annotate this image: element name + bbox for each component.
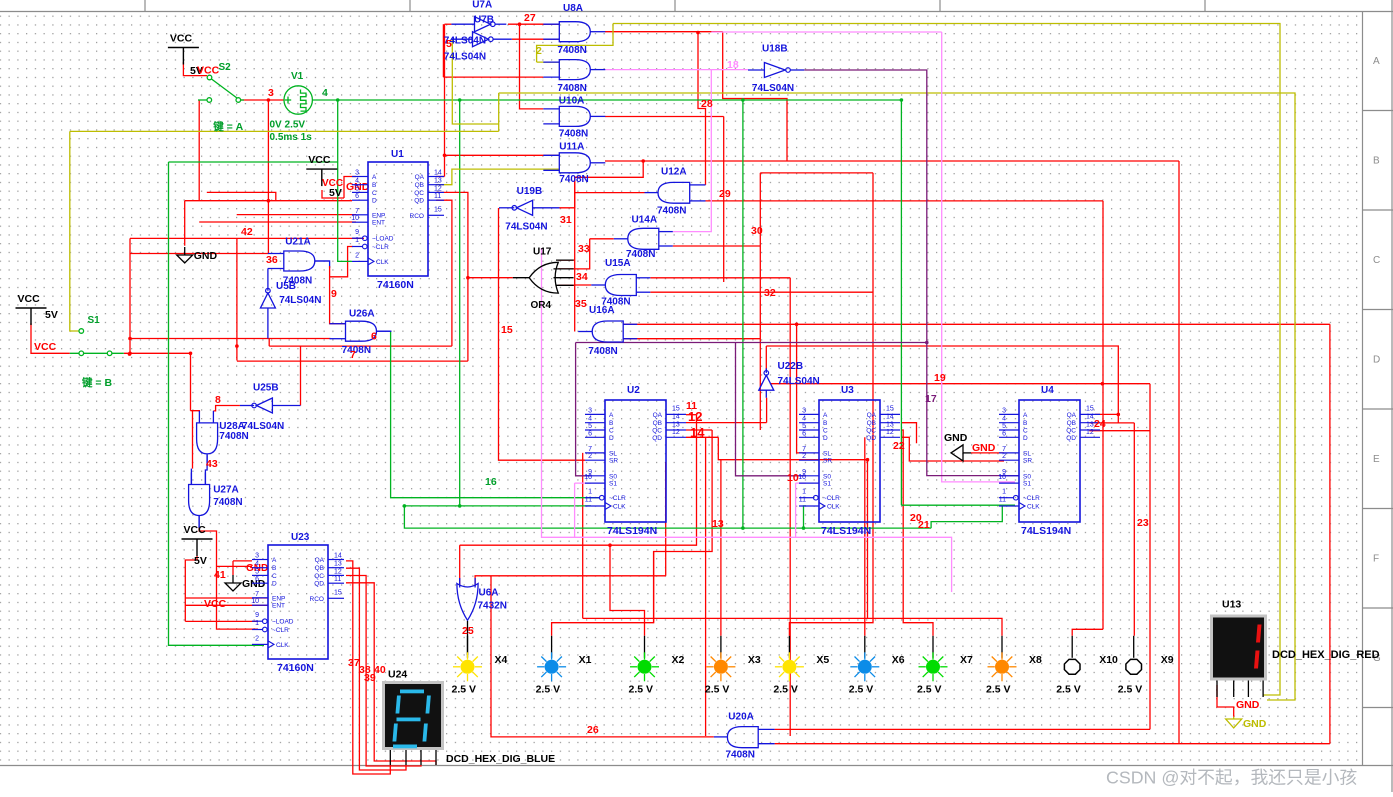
svg-text:X1: X1 — [579, 654, 592, 666]
AND gate U14A 7408N (mirrored, points left) — [614, 215, 673, 261]
svg-text:D: D — [1023, 435, 1028, 442]
AND gate U26A 7408N — [330, 308, 392, 356]
wire net 23 vert — [1149, 384, 1151, 730]
svg-text:QD: QD — [866, 435, 876, 442]
inverter U25B 74LS04N (points left) — [240, 383, 301, 433]
svg-text:12: 12 — [1086, 429, 1094, 436]
svg-text:15: 15 — [1086, 405, 1094, 412]
svg-text:V1: V1 — [291, 71, 304, 82]
svg-text:11: 11 — [799, 497, 806, 504]
wire olive row y93 — [499, 93, 1295, 700]
svg-text:22: 22 — [893, 440, 905, 452]
wire U6A.in2 feed — [475, 576, 666, 586]
AND gate U10A 7408N — [543, 96, 605, 140]
wire U4.QA out — [1095, 413, 1118, 415]
counter U23 74160N — [251, 532, 344, 674]
svg-text:OR4: OR4 — [531, 300, 552, 311]
wire net 7 row — [237, 360, 468, 362]
svg-text:36: 36 — [266, 254, 278, 266]
svg-text:12: 12 — [688, 409, 702, 424]
svg-text:2: 2 — [802, 453, 806, 460]
svg-text:74160N: 74160N — [277, 662, 314, 674]
svg-text:S1: S1 — [1023, 481, 1031, 488]
svg-text:F: F — [1373, 554, 1379, 565]
wire U1.QD to 6net — [436, 200, 452, 346]
svg-text:GND: GND — [944, 432, 968, 444]
svg-text:SL: SL — [823, 450, 831, 457]
svg-text:U13: U13 — [1222, 599, 1241, 611]
wire VCC1-S2 feed — [183, 62, 207, 76]
svg-text:74LS04N: 74LS04N — [242, 421, 284, 432]
wire U3 clr drop — [742, 100, 744, 528]
svg-text:2.5 V: 2.5 V — [536, 683, 561, 695]
svg-text:U3: U3 — [841, 385, 854, 396]
wire pink U3.S1 stub — [796, 482, 806, 484]
OR gate U6A 7432N (points down) — [457, 578, 478, 620]
wire purple U3.S0 — [736, 343, 807, 476]
svg-text:S1: S1 — [88, 315, 101, 326]
svg-text:DCD_HEX_DIG_BLUE: DCD_HEX_DIG_BLUE — [446, 753, 555, 765]
svg-text:14: 14 — [434, 170, 442, 177]
svg-text:34: 34 — [576, 271, 588, 283]
svg-text:17: 17 — [925, 393, 937, 405]
svg-text:31: 31 — [560, 214, 572, 226]
wire U1.QA up — [436, 176, 445, 178]
svg-text:40: 40 — [374, 664, 386, 676]
svg-text:10: 10 — [251, 598, 259, 605]
svg-text:2.5 V: 2.5 V — [629, 683, 654, 695]
wire net top right loop — [723, 32, 787, 161]
wire net 19 row — [770, 383, 1150, 385]
svg-text:U7B: U7B — [474, 15, 494, 26]
AND gate U21A 7408N — [268, 237, 330, 287]
inverter U7B 74LS04N — [444, 15, 512, 63]
wire U23 clk vert — [169, 162, 265, 645]
svg-text:14: 14 — [1086, 413, 1094, 420]
svg-text:32: 32 — [764, 287, 776, 299]
svg-text:14: 14 — [886, 413, 894, 420]
svg-text:QC: QC — [866, 428, 876, 435]
wire net 9 drop — [330, 266, 346, 324]
svg-text:X4: X4 — [495, 654, 508, 666]
wire clk bus down — [404, 506, 931, 528]
svg-text:B: B — [823, 420, 827, 427]
switch S2 — [198, 75, 244, 102]
svg-text:B: B — [372, 182, 376, 189]
wire X1 feed note — [653, 552, 655, 623]
svg-text:D: D — [1373, 355, 1380, 366]
wire net42 drop to 7row — [236, 238, 238, 360]
svg-text:U27A: U27A — [213, 485, 239, 496]
svg-text:15: 15 — [672, 405, 680, 412]
wire U14A.in2 row — [673, 245, 761, 247]
inverter U22B 74LS04N (points up) — [759, 361, 820, 398]
svg-text:2: 2 — [536, 45, 542, 57]
wire net 29 vert — [723, 117, 725, 283]
wire U1 ENT row — [185, 200, 352, 202]
svg-text:B: B — [609, 420, 613, 427]
svg-text:7: 7 — [1002, 446, 1006, 453]
wire U1.QC right — [436, 192, 468, 361]
wire X5 feed — [789, 173, 873, 636]
svg-text:A: A — [272, 557, 277, 564]
svg-text:A: A — [1023, 412, 1028, 419]
svg-text:1: 1 — [255, 620, 259, 627]
wire pink right vert — [942, 32, 1015, 482]
wire net 28 b — [698, 32, 706, 185]
indicator probe X1 — [536, 636, 592, 696]
svg-text:15: 15 — [886, 405, 894, 412]
svg-text:7408N: 7408N — [588, 346, 617, 357]
svg-text:DCD_HEX_DIG_RED: DCD_HEX_DIG_RED — [1272, 649, 1380, 661]
svg-text:29: 29 — [719, 188, 731, 200]
wire U23 ~LOAD feed — [185, 620, 258, 622]
wire olive U1.QB link — [436, 169, 559, 185]
svg-text:A: A — [823, 412, 828, 419]
svg-text:39: 39 — [364, 672, 376, 684]
svg-text:2: 2 — [1002, 453, 1006, 460]
svg-text:5: 5 — [588, 423, 592, 430]
svg-text:5: 5 — [446, 38, 452, 50]
svg-text:74LS194N: 74LS194N — [821, 525, 871, 537]
wire U12A out left — [575, 192, 645, 194]
svg-text:13: 13 — [712, 518, 724, 530]
svg-text:U26A: U26A — [349, 308, 375, 319]
svg-text:7432N: 7432N — [478, 601, 507, 612]
wire X10 feed — [1072, 629, 1103, 636]
wire U1 A feed — [344, 177, 356, 199]
display U24 DCD_HEX_DIG_BLUE — [384, 669, 556, 766]
shift register U4 74LS194N — [998, 385, 1100, 537]
wire net 16 green — [391, 331, 600, 498]
wire U27A out blue — [198, 516, 200, 529]
svg-text:QA: QA — [415, 174, 425, 181]
svg-text:~CLR: ~CLR — [823, 495, 840, 502]
svg-text:74160N: 74160N — [377, 279, 414, 291]
wire U2.QB out — [686, 422, 767, 424]
svg-text:7: 7 — [350, 349, 356, 361]
display U13 DCD_HEX_DIG_RED — [1212, 599, 1380, 698]
svg-text:7: 7 — [355, 208, 359, 215]
wire U7A.in stub feed — [445, 23, 452, 25]
wire purple U18B out — [804, 70, 1019, 476]
svg-text:6: 6 — [355, 193, 359, 200]
svg-text:QB: QB — [415, 182, 424, 189]
svg-text:6: 6 — [255, 576, 259, 583]
wire U6A.in1 drop — [459, 545, 461, 586]
wire U27A.A blue drop — [190, 469, 192, 485]
wire U22B out up — [765, 346, 767, 371]
indicator probe X3 — [705, 636, 761, 696]
svg-text:A: A — [609, 412, 614, 419]
svg-text:C: C — [372, 190, 377, 197]
wire net 30 horiz — [760, 172, 873, 174]
svg-text:4: 4 — [255, 561, 259, 568]
svg-text:GND: GND — [194, 250, 218, 262]
svg-text:12: 12 — [672, 429, 680, 436]
svg-text:U4: U4 — [1041, 385, 1054, 396]
svg-text:43: 43 — [206, 458, 218, 470]
wire U17.out run — [468, 277, 513, 279]
svg-text:2.5 V: 2.5 V — [452, 683, 477, 695]
wire U15A.in2 row — [650, 291, 873, 293]
svg-text:12: 12 — [334, 568, 342, 575]
svg-text:7408N: 7408N — [657, 206, 686, 217]
svg-text:X2: X2 — [672, 654, 685, 666]
AND gate U8A 7408N — [543, 3, 605, 56]
wire U21A out drop — [315, 261, 330, 268]
clock source V1 — [284, 86, 312, 114]
svg-text:13: 13 — [334, 561, 342, 568]
wire net 24 row — [1089, 422, 1134, 424]
AND gate U15A 7408N (mirrored, points left) — [591, 258, 650, 307]
wire U3.SL feed — [797, 324, 806, 453]
svg-text:11: 11 — [334, 576, 341, 583]
svg-text:24: 24 — [1094, 418, 1106, 430]
svg-text:QB: QB — [653, 420, 662, 427]
wire U27A out — [199, 527, 258, 629]
wire U15A.in1 row — [650, 277, 790, 279]
svg-text:5V: 5V — [194, 555, 207, 567]
svg-text:VCC: VCC — [34, 341, 57, 353]
svg-text:B: B — [272, 565, 276, 572]
svg-text:11: 11 — [585, 497, 592, 504]
wire U25B.in riser — [300, 346, 302, 405]
svg-text:U7A: U7A — [472, 0, 492, 11]
svg-text:7408N: 7408N — [213, 497, 242, 508]
svg-text:QD: QD — [414, 198, 424, 205]
wire U1 ctrl jog b — [207, 192, 276, 200]
svg-text:QC: QC — [1066, 428, 1076, 435]
indicator probe X9 — [1118, 636, 1174, 696]
switch S1 — [70, 329, 124, 356]
wire net 31/33/34 spine — [574, 177, 576, 331]
svg-text:QB: QB — [1067, 420, 1076, 427]
wire net13 vert U20A.in1 — [705, 437, 707, 736]
svg-text:23: 23 — [1137, 517, 1149, 529]
svg-text:键 = A: 键 = A — [212, 120, 243, 133]
svg-text:U25B: U25B — [253, 383, 279, 394]
wire S2 to V1 seg — [241, 99, 285, 101]
wire pink U18B in — [711, 69, 748, 71]
svg-text:14: 14 — [334, 553, 342, 560]
svg-text:U2: U2 — [627, 385, 640, 396]
svg-text:6: 6 — [588, 430, 592, 437]
svg-text:3: 3 — [355, 170, 359, 177]
wire VCC4 red drop — [185, 556, 197, 621]
power VCC symbol 2 — [306, 169, 337, 186]
svg-text:15: 15 — [501, 324, 513, 336]
svg-text:VCC: VCC — [18, 293, 41, 305]
wire net 42 riser to U1 ~LOAD — [130, 237, 364, 239]
svg-text:11: 11 — [999, 497, 1006, 504]
svg-text:3: 3 — [1002, 407, 1006, 414]
wire U23.QB run — [346, 568, 406, 770]
wire U2.QC out — [686, 429, 712, 431]
wire QA drop — [460, 415, 697, 546]
svg-text:2.5 V: 2.5 V — [705, 683, 730, 695]
svg-text:U19B: U19B — [517, 186, 543, 197]
wire U11A.in1 row — [445, 154, 560, 156]
svg-text:键 = B: 键 = B — [81, 376, 112, 389]
svg-text:4: 4 — [322, 87, 328, 99]
AND gate U11A 7408N — [543, 141, 605, 185]
ground symbol 5 (U13, yellow) — [1226, 717, 1242, 728]
wire U28A out to U27A.B — [205, 455, 207, 484]
svg-text:A: A — [372, 174, 377, 181]
wire U22B net right — [766, 346, 1118, 423]
svg-text:2: 2 — [588, 453, 592, 460]
OR gate U17 OR4 (4-input, points left) — [513, 260, 574, 293]
svg-text:SL: SL — [609, 450, 617, 457]
wire S1 pole red — [31, 323, 70, 353]
svg-text:U15A: U15A — [605, 258, 631, 269]
svg-text:S1: S1 — [823, 481, 831, 488]
svg-text:D: D — [609, 435, 614, 442]
svg-text:X6: X6 — [892, 654, 905, 666]
svg-text:ENP: ENP — [372, 212, 385, 219]
wire U4 clk stem — [900, 100, 902, 505]
svg-text:2.5 V: 2.5 V — [1056, 683, 1081, 695]
svg-text:4: 4 — [588, 416, 592, 423]
svg-text:19: 19 — [934, 372, 946, 384]
svg-text:25: 25 — [462, 625, 474, 637]
wire net41 gnd drop — [232, 561, 234, 575]
svg-text:~CLR: ~CLR — [1023, 495, 1040, 502]
svg-text:X5: X5 — [816, 654, 829, 666]
svg-text:2.5 V: 2.5 V — [917, 683, 942, 695]
svg-text:S0: S0 — [609, 473, 617, 480]
svg-text:0V 2.5V: 0V 2.5V — [270, 120, 306, 131]
svg-text:5: 5 — [355, 185, 359, 192]
wire U17.in4 stub feed — [558, 284, 575, 286]
svg-text:3: 3 — [255, 553, 259, 560]
svg-text:74LS04N: 74LS04N — [505, 222, 547, 233]
wire U27A.A feed — [192, 411, 194, 469]
wire net S2/V1 down to U21A.A — [267, 100, 269, 254]
wire net 42 left vertical — [129, 238, 131, 353]
wire X3 feed vert — [720, 460, 722, 636]
svg-text:9: 9 — [355, 229, 359, 236]
svg-text:X8: X8 — [1029, 654, 1042, 666]
svg-text:QD: QD — [1066, 435, 1076, 442]
svg-text:5V: 5V — [329, 187, 342, 199]
wire U3.QB right — [901, 423, 917, 444]
wire U23 ENP feed — [185, 597, 268, 599]
junction dots — [267, 98, 271, 102]
wire U1 ~CLR branch — [330, 247, 353, 277]
svg-text:13: 13 — [434, 178, 442, 185]
wire U23.QD run — [346, 583, 436, 765]
svg-text:30: 30 — [751, 225, 763, 237]
power VCC symbol 4 — [182, 539, 213, 556]
svg-text:X7: X7 — [960, 654, 973, 666]
svg-text:10: 10 — [351, 215, 359, 222]
AND gate U27A 7408N (vertical) — [189, 473, 243, 528]
wire pink U3.S1 riser — [795, 483, 797, 537]
svg-text:U6A: U6A — [479, 588, 499, 599]
shift register U3 74LS194N — [798, 385, 900, 537]
wire purple U2.S0 — [576, 343, 591, 476]
svg-text:QD: QD — [314, 581, 324, 588]
wire U23 ENT feed — [185, 604, 268, 606]
svg-text:12: 12 — [434, 185, 442, 192]
inverter U19B 74LS04N (points left) — [499, 186, 560, 233]
svg-text:CSDN @对不起，我还只是小孩: CSDN @对不起，我还只是小孩 — [1106, 768, 1357, 788]
wire olive U9A in1 — [537, 61, 560, 63]
indicator probe X6 — [849, 636, 905, 696]
svg-text:U16A: U16A — [589, 305, 615, 316]
svg-text:A: A — [1373, 56, 1380, 67]
wire U17.in1 stub feed — [558, 259, 574, 261]
wire U2.SL vert — [582, 453, 584, 619]
wire U1 B feed — [322, 190, 344, 198]
svg-text:18: 18 — [727, 59, 739, 71]
wire U3.CLK branch — [804, 506, 807, 528]
wire olive row y23 — [613, 24, 1280, 696]
svg-text:~CLR: ~CLR — [609, 495, 626, 502]
svg-text:U5B: U5B — [276, 281, 296, 292]
counter U1 74160N — [351, 149, 444, 291]
svg-text:1: 1 — [588, 489, 592, 496]
wire U2 clk drop — [459, 100, 461, 506]
svg-text:QA: QA — [315, 557, 325, 564]
svg-text:CLK: CLK — [276, 642, 289, 649]
AND gate U28A 7408N (vertical) — [197, 411, 249, 466]
wire U17.in2 link — [558, 239, 589, 269]
svg-text:~CLR: ~CLR — [372, 244, 389, 251]
svg-text:5: 5 — [1002, 423, 1006, 430]
svg-text:13: 13 — [672, 422, 680, 429]
svg-text:10: 10 — [584, 474, 592, 481]
svg-text:SR: SR — [609, 458, 618, 465]
shift register U2 74LS194N — [584, 385, 686, 537]
ground symbol 2 — [225, 575, 241, 591]
svg-text:4: 4 — [1002, 416, 1006, 423]
svg-text:6: 6 — [802, 430, 806, 437]
wire S1 out to right — [124, 353, 191, 410]
svg-text:7408N: 7408N — [726, 750, 755, 761]
svg-text:ENT: ENT — [272, 603, 285, 610]
wire U22B in vert — [766, 398, 768, 423]
svg-text:C: C — [272, 573, 277, 580]
svg-text:C: C — [609, 428, 614, 435]
svg-text:QC: QC — [652, 428, 662, 435]
wire U26A out stub — [377, 330, 391, 332]
AND gate U12A 7408N (mirrored, points left) — [645, 166, 706, 216]
wire pink U2.S1 riser — [574, 483, 576, 537]
svg-text:13: 13 — [886, 422, 894, 429]
svg-text:ENT: ENT — [372, 220, 385, 227]
svg-text:GND: GND — [242, 578, 266, 590]
svg-text:13: 13 — [1086, 422, 1094, 429]
svg-text:X10: X10 — [1099, 654, 1118, 666]
svg-text:3: 3 — [802, 407, 806, 414]
wire net QD-SL down — [868, 460, 1003, 636]
svg-text:VCC: VCC — [204, 598, 227, 610]
wire U28A.A feed — [191, 411, 200, 412]
svg-text:U1: U1 — [391, 149, 404, 160]
svg-text:S1: S1 — [609, 481, 617, 488]
wire olive jog up — [498, 93, 500, 131]
svg-text:11: 11 — [434, 193, 441, 200]
wire net29 drop right — [1102, 201, 1104, 629]
svg-text:QA: QA — [867, 412, 877, 419]
svg-text:9: 9 — [255, 612, 259, 619]
wire U9A.in2 drop — [442, 24, 444, 77]
svg-text:7408N: 7408N — [557, 83, 586, 94]
svg-text:ENP: ENP — [272, 595, 285, 602]
